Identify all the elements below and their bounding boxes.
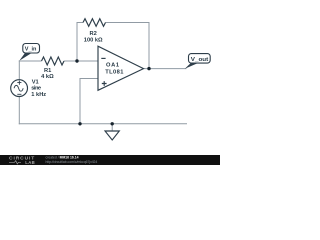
svg-text:TL081: TL081 xyxy=(105,69,123,75)
svg-text:R2: R2 xyxy=(90,31,97,37)
svg-text:sine: sine xyxy=(31,86,41,92)
svg-text:LAB: LAB xyxy=(25,160,35,165)
svg-text:V_out: V_out xyxy=(191,57,209,63)
svg-text:4 kΩ: 4 kΩ xyxy=(41,74,54,80)
svg-text:V1: V1 xyxy=(32,80,39,86)
svg-text:V_in: V_in xyxy=(25,46,37,52)
svg-text:http:⁄⁄circuitlab.com/c/mkcq67: http:⁄⁄circuitlab.com/c/mkcq67jx/l24 xyxy=(46,160,98,164)
svg-text:100 kΩ: 100 kΩ xyxy=(84,38,103,44)
svg-text:OA1: OA1 xyxy=(106,63,119,69)
svg-text:1 kHz: 1 kHz xyxy=(31,92,46,98)
